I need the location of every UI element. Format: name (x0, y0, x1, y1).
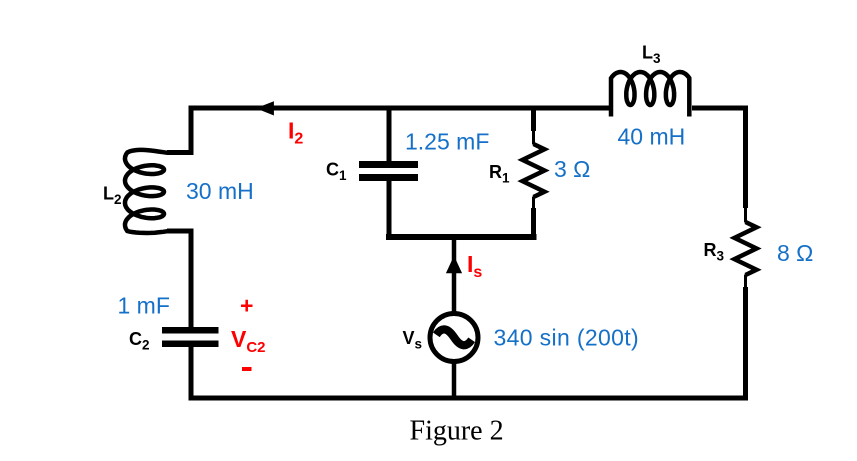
svg-text:30 mH: 30 mH (186, 178, 254, 204)
source Vs circle (430, 314, 478, 362)
wire: Is stub from box bottom to Vs source top (452, 240, 457, 312)
svg-text:1 mF: 1 mF (118, 293, 170, 319)
svg-text:Figure 2: Figure 2 (410, 416, 504, 447)
svg-text:VC2: VC2 (231, 326, 266, 356)
resistor R1 zigzag (523, 144, 545, 197)
wire: R1 top stub (531, 106, 536, 132)
svg-text:1.25 mF: 1.25 mF (405, 129, 489, 155)
wire: C1 bottom stub (387, 181, 392, 237)
wire: top rail from middle node to top-left corner, down to L2 top (167, 108, 609, 153)
wire: R1 bottom stub (531, 208, 536, 237)
wire: R3 to bottom-right corner (743, 287, 748, 398)
svg-text:Vs: Vs (403, 328, 423, 352)
svg-text:+: + (240, 293, 253, 319)
capacitor C1 plates (359, 161, 418, 168)
resistor R3 zigzag (735, 222, 757, 275)
wire: L2 bottom to C2 top plate (167, 231, 191, 327)
wire: R3 lead top (thin) (744, 208, 747, 223)
svg-text:Is: Is (467, 251, 482, 281)
svg-text:340 sin (200t): 340 sin (200t) (494, 325, 640, 351)
inductor L2 (125, 150, 168, 233)
current arrow I2 (pointing left on top rail) (256, 101, 274, 115)
source Vs sine symbol (436, 329, 471, 345)
svg-text:3 Ω: 3 Ω (554, 156, 590, 182)
wire: R1 lead bottom (thin) (532, 197, 535, 210)
svg-text:C2: C2 (129, 329, 150, 353)
svg-text:R1: R1 (489, 162, 510, 186)
wire: C1 branch top stub (387, 106, 392, 162)
svg-text:I2: I2 (288, 118, 303, 148)
wire: R3 lead bottom (thin) (744, 275, 747, 289)
inductor L3 (611, 72, 689, 117)
wire: parallel-box bottom (386, 234, 537, 240)
svg-text:L3: L3 (642, 43, 661, 67)
capacitor C2 plates (162, 327, 219, 334)
svg-text:C1: C1 (326, 160, 347, 184)
wire: R1 lead top (thin) (532, 131, 535, 145)
svg-text:40 mH: 40 mH (618, 124, 686, 150)
svg-text:R3: R3 (704, 240, 725, 264)
wire: Vs bottom to bottom rail (452, 360, 457, 398)
current arrow Is (pointing up into box) (446, 256, 462, 273)
svg-text:L2: L2 (103, 184, 122, 208)
svg-text:8 Ω: 8 Ω (777, 240, 813, 266)
wire: bottom rail (189, 396, 749, 401)
wire: top rail right segment from L3 to top-right corner down to R3 (692, 108, 746, 208)
wire: C2 bottom plate to bottom-left corner (189, 347, 194, 396)
label - polarity of VC2 (242, 367, 252, 371)
